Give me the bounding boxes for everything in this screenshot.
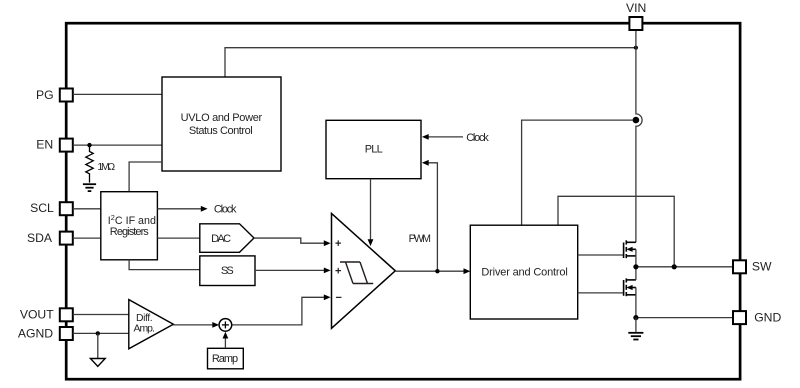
node PWM junction dot xyxy=(435,269,439,273)
pin EN xyxy=(60,139,73,152)
wire I2C box to UVLO left edge xyxy=(129,162,162,192)
svg-text:I2C IF and: I2C IF and xyxy=(108,213,156,227)
block UVLO and Power Status Control xyxy=(162,77,281,171)
wire summing node to comparator input 3 xyxy=(232,297,325,325)
svg-text:+: + xyxy=(335,265,341,277)
block PLL xyxy=(326,120,421,178)
svg-text:Amp.: Amp. xyxy=(134,324,155,335)
wire Driver and Control to SW node (top route) xyxy=(558,196,674,266)
svg-text:Status Control: Status Control xyxy=(189,125,253,137)
node VIN-driver connection dot xyxy=(633,117,640,124)
block DAC xyxy=(200,224,254,253)
svg-text:−: − xyxy=(336,292,342,304)
pin GND xyxy=(733,311,746,324)
resistor 1M ohm xyxy=(86,145,93,183)
wire Q1 source to SW node xyxy=(635,249,637,266)
svg-text:Clock: Clock xyxy=(214,203,237,215)
wire GND node to power ground xyxy=(635,318,637,332)
pin VIN xyxy=(629,17,642,30)
node junction dot on VIN rail at y=47.7 xyxy=(634,46,638,50)
svg-text:Clock: Clock xyxy=(466,132,489,144)
wire Driver and Control to VIN rail xyxy=(522,120,633,225)
pin SW xyxy=(733,260,746,273)
wire VOUT to Diff Amp xyxy=(73,314,129,316)
wire SDA to I2C box xyxy=(73,237,101,239)
op-amp comparator (PWM) xyxy=(332,213,396,328)
block SS xyxy=(200,256,255,286)
svg-text:EN: EN xyxy=(36,138,53,152)
op-amp Diff Amp xyxy=(129,300,174,349)
wire SW node between MOSFETs xyxy=(635,267,637,280)
IC boundary border xyxy=(66,23,740,379)
svg-text:VOUT: VOUT xyxy=(20,308,54,322)
svg-text:DAC: DAC xyxy=(211,233,231,245)
wire gate drive lower xyxy=(578,292,623,294)
wire Clock into PLL xyxy=(428,136,463,138)
wire PG to UVLO xyxy=(73,93,162,95)
svg-text:SCL: SCL xyxy=(30,201,54,215)
wire SCL to I2C box xyxy=(73,208,101,210)
wire Ramp to summing node xyxy=(224,337,226,348)
svg-text:+: + xyxy=(335,238,341,250)
svg-text:UVLO and Power: UVLO and Power xyxy=(181,112,263,124)
wire Q2 source to GND node xyxy=(635,288,637,318)
wire DAC to comparator input 1 xyxy=(254,238,325,243)
wire AGND junction to signal ground xyxy=(97,333,99,358)
wire I2C clock output xyxy=(157,208,201,210)
hysteresis symbol xyxy=(340,262,373,284)
wire PWM feedback to PLL xyxy=(428,163,437,271)
wire UVLO top to VIN rail xyxy=(225,48,636,77)
node SW junction at top route xyxy=(672,264,677,269)
wire SS to comparator input 2 xyxy=(255,269,325,271)
svg-text:Registers: Registers xyxy=(110,226,150,238)
ground (earth) power ground xyxy=(628,333,643,340)
wire PLL bottom to comparator xyxy=(370,179,372,240)
wire I2C to SS xyxy=(129,260,200,270)
svg-text:SS: SS xyxy=(221,265,234,277)
svg-text:AGND: AGND xyxy=(18,327,53,341)
svg-text:PLL: PLL xyxy=(365,144,383,156)
node GND junction xyxy=(633,315,638,320)
wire GND node to GND pin xyxy=(636,317,733,319)
svg-text:1MΩ: 1MΩ xyxy=(97,162,115,173)
svg-text:GND: GND xyxy=(754,311,781,325)
svg-text:PWM: PWM xyxy=(409,233,431,245)
wire gate drive upper xyxy=(578,254,623,256)
svg-text:Diff.: Diff. xyxy=(136,313,153,324)
pin SDA xyxy=(60,232,73,245)
block Driver and Control xyxy=(470,225,577,319)
wire SW node to SW pin xyxy=(636,266,733,268)
transistor Q2 low-side MOSFET xyxy=(624,278,636,296)
pin AGND xyxy=(60,327,73,340)
pin SCL xyxy=(60,202,73,215)
wire EN to UVLO xyxy=(73,144,162,146)
node EN junction xyxy=(87,143,91,147)
wire AGND to Diff Amp xyxy=(73,332,129,334)
pin PG xyxy=(60,89,73,102)
svg-text:Driver and Control: Driver and Control xyxy=(481,266,567,278)
svg-text:Ramp: Ramp xyxy=(212,353,238,365)
block I2C IF and Registers xyxy=(101,192,158,260)
svg-text:PG: PG xyxy=(36,88,54,102)
svg-text:SDA: SDA xyxy=(27,231,53,245)
ground (signal) triangle xyxy=(90,359,105,367)
node AGND junction xyxy=(96,331,100,335)
wire I2C to DAC xyxy=(157,237,199,239)
node SW junction at rail xyxy=(633,264,638,269)
wire comparator output (PWM) to Driver xyxy=(395,270,464,272)
svg-text:VIN: VIN xyxy=(626,1,646,15)
pin VOUT xyxy=(60,308,73,321)
wire VIN rail vertical xyxy=(636,30,642,243)
node summing junction circle xyxy=(219,319,232,332)
block Ramp xyxy=(208,348,244,369)
wire Diff Amp output to summing node xyxy=(173,324,213,326)
ground (earth) below 1M resistor xyxy=(83,184,96,191)
svg-text:SW: SW xyxy=(752,260,772,274)
transistor Q1 high-side MOSFET xyxy=(624,240,636,258)
